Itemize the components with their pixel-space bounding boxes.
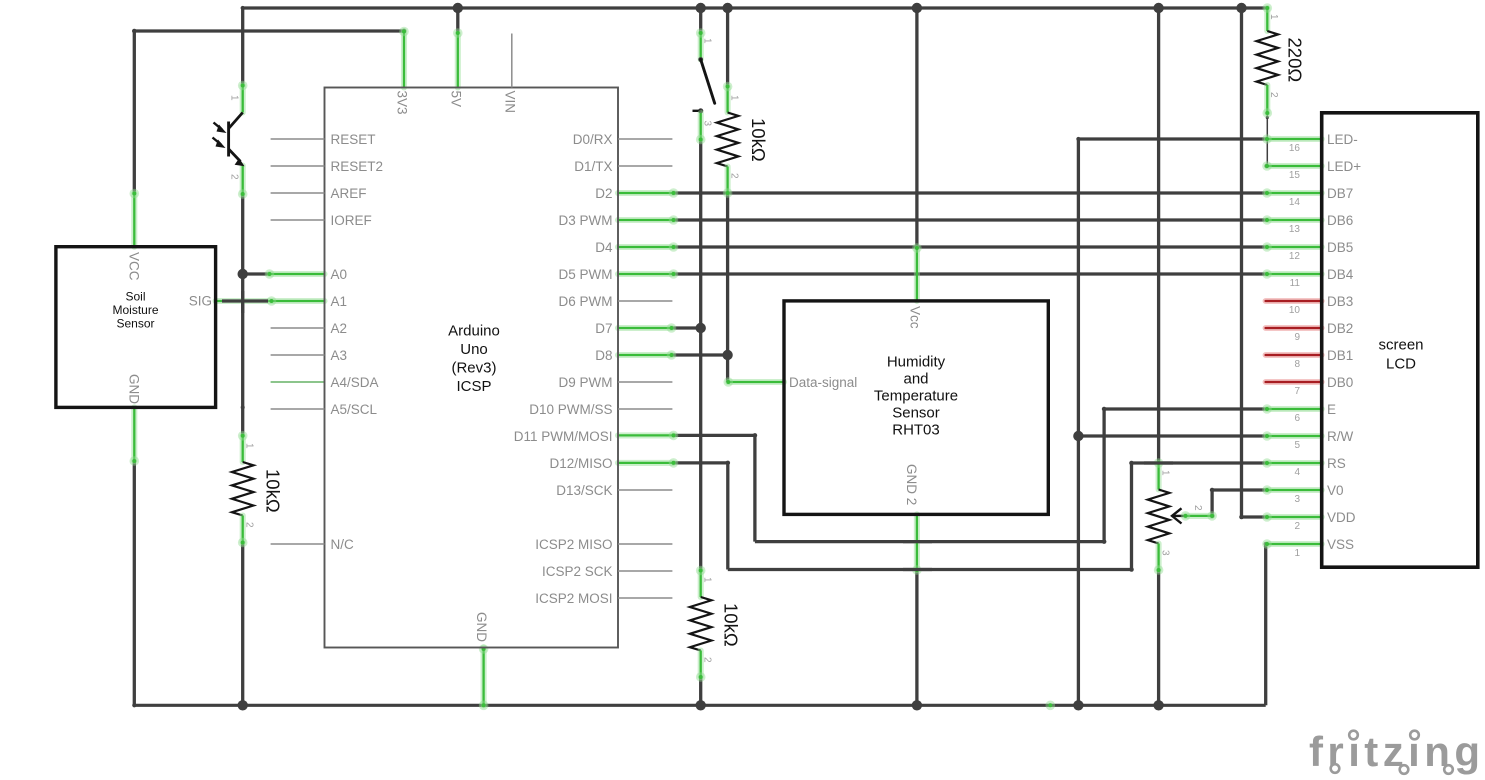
- wire 5V bus to potentiometer pin1: [1157, 8, 1160, 463]
- pin Arduino AREF (gray): [271, 192, 325, 194]
- wire Arduino D11 to corner: [672, 433, 757, 438]
- svg-text:220Ω: 220Ω: [1285, 38, 1306, 83]
- svg-text:1: 1: [1294, 548, 1300, 559]
- pin LCD DB6 (green): [1262, 215, 1322, 225]
- pin Arduino A3 (gray): [271, 354, 325, 356]
- wire potentiometer pin3 to GND bus: [1157, 570, 1160, 705]
- pin Arduino N/C (gray): [271, 543, 325, 545]
- potentiometer pin labels: [1160, 470, 1204, 556]
- wire D3 to LCD DB6: [672, 218, 1267, 221]
- svg-text:3: 3: [1160, 550, 1171, 556]
- svg-text:1: 1: [702, 38, 713, 44]
- svg-text:Moisture: Moisture: [112, 303, 158, 317]
- resistor R2 10k: [717, 82, 739, 198]
- wire LED- to GND column: [1076, 137, 1267, 141]
- resistor R1 220: [1257, 3, 1279, 118]
- RHT03 sensor box: [784, 301, 1048, 515]
- soil sensor pin labels: [127, 252, 213, 404]
- pin soil VCC (green): [130, 189, 140, 247]
- svg-text:A4/SDA: A4/SDA: [331, 375, 379, 390]
- svg-text:2: 2: [244, 522, 255, 528]
- svg-text:SIG: SIG: [189, 294, 212, 309]
- wire RS riser up: [1129, 461, 1134, 570]
- svg-text:1: 1: [244, 443, 255, 449]
- svg-text:Vcc: Vcc: [907, 306, 922, 329]
- svg-text:ICSP2 MOSI: ICSP2 MOSI: [535, 591, 612, 606]
- wire 220ohm to LED+ (thin): [1264, 114, 1269, 169]
- pin D3 (green): [618, 215, 678, 225]
- wire 5V bus to resistor R2 pin1: [726, 8, 729, 87]
- wire Arduino D12 to corner: [672, 461, 730, 466]
- wire V0 corner: [1210, 488, 1267, 519]
- svg-text:A2: A2: [331, 321, 348, 336]
- Arduino title: [448, 323, 500, 396]
- pin Arduino RESET (gray): [271, 138, 325, 140]
- fritzing logo: [1309, 727, 1480, 775]
- svg-text:10kΩ: 10kΩ: [263, 469, 284, 513]
- pin LCD DB2 (red, unrouted): [1266, 325, 1322, 331]
- wire crossing over RHT03 GND2 pin: [903, 542, 932, 570]
- wire phototransistor pin2 to A0 junction: [241, 194, 245, 409]
- wire D8 junction to RHT03 data corner: [726, 355, 729, 382]
- wire D7 junction to resistor R4: [699, 328, 702, 571]
- svg-text:D3 PWM: D3 PWM: [559, 213, 613, 228]
- svg-text:3: 3: [702, 121, 713, 127]
- wire D11 riser down: [753, 435, 756, 541]
- svg-text:1: 1: [1160, 470, 1171, 476]
- svg-text:13: 13: [1289, 224, 1301, 235]
- pin D11 (green): [618, 431, 678, 441]
- svg-text:A1: A1: [331, 294, 348, 309]
- pin LCD VSS (green): [1262, 539, 1322, 549]
- pin Arduino D10 PWM/SS (gray): [618, 408, 672, 410]
- svg-text:ICSP2 MISO: ICSP2 MISO: [535, 537, 612, 552]
- svg-text:D0/RX: D0/RX: [573, 132, 613, 147]
- svg-text:AREF: AREF: [331, 186, 367, 201]
- wire resistor R3 pin2 to GND bus: [241, 543, 244, 706]
- wire crossing over SIG pin: [241, 291, 244, 313]
- pin A0 (green): [265, 269, 325, 279]
- svg-text:DB3: DB3: [1327, 294, 1353, 309]
- svg-text:ICSP: ICSP: [456, 378, 491, 395]
- wire D2 to LCD DB7: [672, 191, 1267, 194]
- svg-text:LED+: LED+: [1327, 159, 1361, 174]
- Arduino top pin labels: [395, 91, 518, 115]
- wire 3V3 to soil-sensor VCC (horizontal): [132, 29, 406, 34]
- svg-text:1: 1: [229, 95, 240, 101]
- pin Arduino D6 PWM (gray): [618, 300, 672, 302]
- phototransistor pin labels: [229, 95, 240, 180]
- svg-text:10kΩ: 10kΩ: [748, 118, 769, 162]
- junction A0 node: [238, 269, 248, 279]
- svg-text:DB2: DB2: [1327, 321, 1353, 336]
- pin Arduino VIN (gray): [511, 34, 513, 88]
- pin 3V3 (green): [399, 27, 409, 88]
- svg-text:DB0: DB0: [1327, 375, 1353, 390]
- svg-text:A3: A3: [331, 348, 348, 363]
- svg-text:12: 12: [1289, 251, 1301, 262]
- pin LCD DB7 (green): [1262, 188, 1322, 198]
- wire 5V bus to Arduino 5V: [456, 8, 459, 34]
- svg-text:3V3: 3V3: [395, 91, 410, 115]
- svg-text:GND: GND: [127, 374, 142, 404]
- svg-text:4: 4: [1294, 467, 1300, 478]
- pin LCD DB0 (red, unrouted): [1266, 379, 1322, 385]
- wire resistor R4 pin2 to GND bus: [699, 677, 702, 705]
- junction GND bus/R3: [238, 700, 248, 710]
- wire to LCD E pin: [1104, 407, 1267, 410]
- wire Arduino D8 to junction: [672, 353, 728, 356]
- LCD title: [1378, 337, 1423, 373]
- wire 5V riser to VDD: [1239, 8, 1244, 519]
- wire R/W to GND column: [1078, 434, 1267, 437]
- svg-text:2: 2: [702, 657, 713, 663]
- wire GND bottom bus: [134, 704, 1265, 707]
- LCD box: [1322, 113, 1478, 567]
- pin LCD DB4 (green): [1262, 269, 1322, 279]
- pin Arduino IOREF (gray): [271, 219, 325, 221]
- Arduino GND pin label: [474, 612, 489, 642]
- svg-text:RESET: RESET: [331, 132, 376, 147]
- RHT03 title: [874, 354, 958, 439]
- svg-text:VSS: VSS: [1327, 537, 1354, 552]
- svg-text:Data-signal: Data-signal: [789, 375, 857, 390]
- wire crossing over potentiometer pin1: [1144, 461, 1173, 464]
- svg-text:screen: screen: [1378, 337, 1423, 354]
- svg-text:DB4: DB4: [1327, 267, 1354, 282]
- svg-text:2: 2: [229, 174, 240, 180]
- wire D12 riser down: [726, 463, 729, 570]
- svg-text:Humidity: Humidity: [887, 354, 946, 371]
- svg-text:GND 2: GND 2: [904, 464, 919, 505]
- potentiometer RV1: [1148, 458, 1217, 575]
- pin A4/SDA (muted green): [271, 381, 325, 383]
- svg-text:3: 3: [1294, 494, 1300, 505]
- junction 5V/potentiometer: [1153, 3, 1163, 13]
- resistor R3 10k: [232, 431, 254, 547]
- svg-text:N/C: N/C: [331, 537, 355, 552]
- pin RHT03 Vcc (green): [912, 243, 922, 301]
- svg-text:9: 9: [1294, 332, 1300, 343]
- wire E riser up: [1102, 407, 1107, 542]
- svg-text:VIN: VIN: [502, 91, 517, 114]
- svg-text:D8: D8: [595, 348, 612, 363]
- wire VDD horizontal: [1242, 515, 1268, 518]
- svg-text:A5/SCL: A5/SCL: [331, 402, 378, 417]
- Arduino right pin labels: [514, 132, 613, 606]
- svg-text:Soil: Soil: [125, 290, 145, 304]
- svg-text:RESET2: RESET2: [331, 159, 384, 174]
- svg-text:D7: D7: [595, 321, 612, 336]
- junction GND bus/RHT03-GND2: [912, 700, 922, 710]
- svg-text:D6 PWM: D6 PWM: [559, 294, 613, 309]
- switch pin labels: [702, 38, 713, 127]
- pin LCD DB5 (green): [1262, 242, 1322, 252]
- wire switch pin3 to D7 junction: [699, 140, 702, 329]
- wire Arduino D7 to switch junction: [672, 326, 701, 329]
- resistor R3 labels: [244, 443, 284, 528]
- svg-text:Arduino: Arduino: [448, 323, 500, 340]
- svg-text:D4: D4: [595, 240, 613, 255]
- pin LCD VDD (green): [1262, 512, 1322, 522]
- pin LCD LED- (green): [1262, 134, 1322, 144]
- svg-text:16: 16: [1289, 143, 1301, 154]
- svg-text:E: E: [1327, 402, 1336, 417]
- LCD pin name labels: [1327, 132, 1361, 552]
- svg-text:15: 15: [1289, 170, 1301, 181]
- Arduino Uno box: [325, 88, 619, 648]
- pin Arduino RESET2 (gray): [271, 165, 325, 167]
- soil sensor title: [112, 290, 158, 331]
- svg-text:ICSP2 SCK: ICSP2 SCK: [542, 564, 613, 579]
- svg-text:D13/SCK: D13/SCK: [556, 483, 612, 498]
- svg-text:RS: RS: [1327, 456, 1346, 471]
- junction GND bus/R4: [696, 700, 706, 710]
- junction 5V/switch: [696, 3, 706, 13]
- pin LCD DB3 (red, unrouted): [1266, 298, 1322, 304]
- wire resistor R2 pin2 / D2 net to D8 junction: [726, 193, 729, 355]
- pin RHT03 Data-signal (green): [724, 377, 785, 387]
- wire 5V bus to phototransistor pin1: [241, 8, 244, 86]
- pin Arduino A5/SCL (gray): [271, 408, 325, 410]
- svg-text:D2: D2: [595, 186, 612, 201]
- svg-text:7: 7: [1294, 386, 1300, 397]
- pin Arduino ICSP2 SCK (gray): [618, 570, 672, 572]
- svg-text:GND: GND: [474, 612, 489, 642]
- resistor R1 labels: [1268, 14, 1306, 98]
- svg-text:(Rev3): (Rev3): [451, 360, 496, 377]
- pin LCD DB1 (red, unrouted): [1266, 352, 1322, 358]
- svg-text:Uno: Uno: [460, 341, 488, 358]
- junction GND bus/LED- column: [1073, 700, 1083, 710]
- Arduino left pin labels: [331, 132, 384, 552]
- pin D7 (green): [618, 323, 676, 333]
- junction GND bus/potentiometer: [1153, 700, 1163, 710]
- svg-text:RHT03: RHT03: [892, 422, 940, 439]
- junction D7/switch: [696, 323, 706, 333]
- svg-text:10: 10: [1289, 305, 1301, 316]
- resistor R4 labels: [702, 577, 742, 663]
- pin LCD E (green): [1262, 404, 1322, 414]
- wire D12 run to RS riser: [728, 567, 1134, 572]
- svg-text:LED-: LED-: [1327, 132, 1358, 147]
- svg-text:D12/MISO: D12/MISO: [549, 456, 612, 471]
- wire RHT03 GND2 to GND bus: [915, 569, 918, 705]
- LCD pin number labels: [1289, 143, 1301, 559]
- wire D4 to LCD DB5: [672, 245, 1267, 248]
- svg-text:14: 14: [1289, 197, 1301, 208]
- pin LCD LED+ (green): [1262, 161, 1322, 171]
- svg-text:DB7: DB7: [1327, 186, 1353, 201]
- resistor R2 labels: [729, 95, 770, 179]
- pin Arduino D1/TX (gray): [618, 165, 672, 167]
- wire D11 run to E riser: [755, 539, 1106, 544]
- wire soil-sensor VCC drop (vertical): [133, 31, 136, 194]
- svg-text:D1/TX: D1/TX: [574, 159, 612, 174]
- svg-text:D5 PWM: D5 PWM: [559, 267, 613, 282]
- junction 5V/Arduino-5V: [453, 3, 463, 13]
- wire junction to Arduino A0: [243, 272, 270, 275]
- svg-text:DB1: DB1: [1327, 348, 1353, 363]
- pin 5V (green): [453, 28, 463, 87]
- pin soil GND (green): [130, 407, 140, 465]
- svg-text:2: 2: [1192, 505, 1203, 511]
- svg-text:5V: 5V: [448, 91, 463, 108]
- switch S1: [693, 28, 715, 144]
- wire 5V bus to switch pin1: [699, 8, 702, 33]
- wire GND column vertical: [1077, 139, 1080, 705]
- pin soil SIG to A1 (green): [216, 296, 325, 306]
- pin Arduino ICSP2 MOSI (gray): [618, 597, 672, 599]
- phototransistor Q1: [213, 81, 248, 199]
- pin Arduino D0/RX (gray): [618, 138, 672, 140]
- svg-text:D11 PWM/MOSI: D11 PWM/MOSI: [514, 429, 613, 444]
- junction D8/R2 column: [722, 350, 732, 360]
- junction 5V/R2: [722, 3, 732, 13]
- svg-text:2: 2: [729, 173, 740, 179]
- svg-text:Sensor: Sensor: [892, 405, 940, 422]
- wire soil-sensor GND to GND bus: [132, 460, 136, 707]
- svg-text:10kΩ: 10kΩ: [721, 603, 742, 647]
- pin Arduino D13/SCK (gray): [618, 489, 672, 491]
- svg-text:DB6: DB6: [1327, 213, 1353, 228]
- svg-text:5: 5: [1294, 440, 1300, 451]
- svg-text:6: 6: [1294, 413, 1300, 424]
- soil moisture sensor box: [56, 247, 216, 408]
- wire to LCD RS pin: [1132, 461, 1268, 464]
- junction 5V/RHT03-Vcc: [912, 3, 922, 13]
- svg-text:and: and: [903, 371, 928, 388]
- svg-text:V0: V0: [1327, 483, 1344, 498]
- wire A0 junction down to resistor R3: [241, 274, 244, 436]
- pin D5 (green): [618, 269, 678, 279]
- junction R/W-GND node: [1073, 431, 1083, 441]
- svg-text:LCD: LCD: [1386, 356, 1416, 373]
- svg-text:R/W: R/W: [1327, 429, 1354, 444]
- pin Arduino D9 PWM (gray): [618, 381, 672, 383]
- pin LCD V0 (green): [1262, 485, 1322, 495]
- pin Arduino GND (green): [479, 644, 489, 710]
- svg-text:8: 8: [1294, 359, 1300, 370]
- svg-text:1: 1: [729, 95, 740, 101]
- wire VSS riser: [1264, 542, 1268, 705]
- RHT03 pin labels: [789, 306, 922, 505]
- pin D4 (green): [618, 242, 678, 252]
- svg-text:1: 1: [702, 577, 713, 583]
- junction 5V/VDD riser: [1236, 3, 1246, 13]
- resistor R4 10k: [690, 566, 712, 682]
- wire D5 to LCD DB4: [672, 272, 1267, 275]
- svg-text:1: 1: [1268, 14, 1279, 20]
- svg-text:VDD: VDD: [1327, 510, 1356, 525]
- pin RHT03 GND2 (green): [912, 514, 922, 574]
- svg-text:A0: A0: [331, 267, 348, 282]
- pin Arduino ICSP2 MISO (gray): [618, 543, 672, 545]
- svg-text:DB5: DB5: [1327, 240, 1353, 255]
- svg-text:2: 2: [1294, 521, 1300, 532]
- pin D12 (green): [618, 458, 678, 468]
- pin D8 (green): [618, 350, 676, 360]
- pin D2 (green): [618, 188, 678, 198]
- stray green dot on GND bus: [1046, 701, 1056, 711]
- wire +5V top bus: [241, 6, 1268, 10]
- wire 5V bus to RHT03 Vcc: [915, 8, 918, 248]
- svg-text:D10 PWM/SS: D10 PWM/SS: [529, 402, 612, 417]
- svg-text:2: 2: [1268, 92, 1279, 98]
- svg-text:11: 11: [1290, 278, 1301, 289]
- svg-text:Temperature: Temperature: [874, 388, 958, 405]
- svg-text:VCC: VCC: [127, 252, 142, 281]
- svg-text:Sensor: Sensor: [116, 317, 154, 331]
- pin LCD RS (green): [1262, 458, 1322, 468]
- svg-text:IOREF: IOREF: [331, 213, 372, 228]
- pin LCD R/W (green): [1262, 431, 1322, 441]
- svg-text:D9 PWM: D9 PWM: [559, 375, 613, 390]
- pin Arduino A2 (gray): [271, 327, 325, 329]
